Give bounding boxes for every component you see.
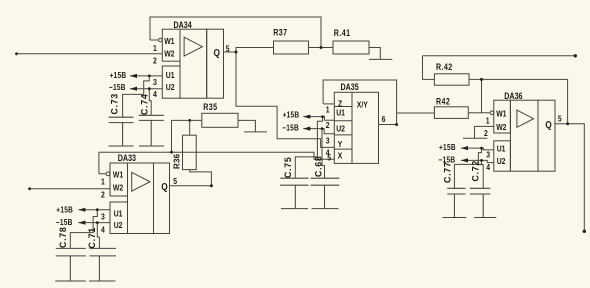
svg-text:DA35: DA35 bbox=[341, 82, 360, 92]
svg-text:W2: W2 bbox=[496, 122, 507, 132]
svg-text:C.77: C.77 bbox=[442, 161, 452, 183]
svg-text:−15B: −15B bbox=[109, 82, 126, 92]
svg-text:W1: W1 bbox=[496, 109, 507, 119]
svg-text:U1: U1 bbox=[114, 209, 123, 219]
svg-text:U2: U2 bbox=[497, 156, 506, 166]
svg-text:R.41: R.41 bbox=[334, 28, 351, 38]
svg-text:U1: U1 bbox=[166, 70, 175, 80]
svg-text:4: 4 bbox=[153, 89, 157, 99]
svg-text:Q: Q bbox=[214, 46, 220, 58]
svg-text:5: 5 bbox=[558, 114, 562, 124]
svg-text:U1: U1 bbox=[336, 108, 345, 118]
svg-text:3: 3 bbox=[101, 212, 105, 222]
svg-text:4: 4 bbox=[101, 225, 105, 235]
svg-text:3: 3 bbox=[486, 150, 490, 160]
svg-text:C.71: C.71 bbox=[87, 227, 97, 249]
svg-text:5: 5 bbox=[327, 153, 331, 163]
svg-text:1: 1 bbox=[326, 105, 330, 115]
svg-text:U1: U1 bbox=[497, 144, 506, 154]
svg-text:U2: U2 bbox=[166, 82, 175, 92]
svg-text:R37: R37 bbox=[273, 28, 287, 38]
svg-text:6: 6 bbox=[382, 114, 386, 124]
svg-text:R36: R36 bbox=[172, 154, 181, 169]
svg-text:+15B: +15B bbox=[56, 205, 73, 215]
svg-text:5: 5 bbox=[173, 176, 177, 186]
svg-text:1: 1 bbox=[101, 177, 105, 187]
svg-text:1: 1 bbox=[153, 43, 157, 53]
svg-text:C.75: C.75 bbox=[283, 156, 293, 178]
svg-text:2: 2 bbox=[101, 190, 105, 200]
svg-text:Q: Q bbox=[545, 118, 551, 130]
svg-text:W1: W1 bbox=[113, 170, 124, 180]
svg-text:C.74: C.74 bbox=[139, 93, 149, 115]
svg-text:DA36: DA36 bbox=[504, 91, 523, 101]
svg-text:C.78: C.78 bbox=[58, 226, 68, 248]
svg-text:Q: Q bbox=[161, 180, 167, 192]
svg-text:−15B: −15B bbox=[282, 123, 299, 133]
svg-text:4: 4 bbox=[486, 162, 490, 172]
svg-text:−15B: −15B bbox=[56, 217, 73, 227]
svg-text:5: 5 bbox=[226, 44, 230, 54]
svg-text:W1: W1 bbox=[164, 36, 175, 46]
svg-text:3: 3 bbox=[153, 77, 157, 87]
svg-text:2: 2 bbox=[153, 56, 157, 66]
svg-text:DA34: DA34 bbox=[174, 20, 193, 30]
svg-text:3: 3 bbox=[326, 136, 330, 146]
svg-text:W2: W2 bbox=[164, 49, 175, 59]
svg-text:C.73: C.73 bbox=[109, 93, 119, 115]
svg-text:2: 2 bbox=[484, 128, 488, 138]
svg-text:U2: U2 bbox=[336, 124, 345, 134]
svg-text:U2: U2 bbox=[114, 220, 123, 230]
svg-text:W2: W2 bbox=[113, 183, 124, 193]
svg-text:X: X bbox=[338, 151, 343, 161]
svg-text:+15B: +15B bbox=[439, 142, 456, 152]
svg-text:X/Y: X/Y bbox=[357, 100, 369, 110]
svg-text:DA33: DA33 bbox=[118, 153, 137, 163]
svg-text:R.42: R.42 bbox=[436, 62, 453, 72]
svg-text:C.72: C.72 bbox=[470, 160, 480, 182]
svg-text:R35: R35 bbox=[203, 102, 217, 112]
svg-text:2: 2 bbox=[326, 120, 330, 130]
svg-text:C.68: C.68 bbox=[313, 155, 323, 177]
svg-text:+15B: +15B bbox=[283, 110, 300, 120]
svg-text:R42: R42 bbox=[436, 97, 450, 107]
svg-text:+15B: +15B bbox=[110, 70, 127, 80]
svg-text:1: 1 bbox=[486, 116, 490, 126]
svg-text:Y: Y bbox=[338, 139, 343, 149]
